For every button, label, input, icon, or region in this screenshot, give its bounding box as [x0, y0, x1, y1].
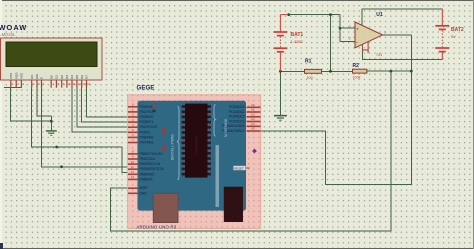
wire ground stem LCD — [50, 116, 52, 131]
svg-text:RS: RS — [30, 75, 34, 79]
sheet border bottom — [0, 248, 474, 249]
wire BAT1 node to R1 — [280, 70, 304, 72]
wire LCD D5 to PD4 — [77, 88, 129, 127]
svg-text:PB2/SS/OC1B: PB2/SS/OC1B — [140, 162, 160, 166]
wire BAT1 minus to ground — [279, 71, 281, 115]
wire RW to ground — [37, 88, 51, 117]
svg-text:PD1/TXD: PD1/TXD — [140, 110, 154, 114]
wire LCD D6 to PD3 — [82, 88, 129, 122]
wire rail drop to R1R2 node — [330, 15, 332, 72]
svg-text:9V: 9V — [451, 34, 456, 39]
svg-text:PB4/MISO: PB4/MISO — [140, 172, 155, 176]
junction feedback at output — [410, 70, 413, 73]
svg-text:11: 11 — [73, 82, 76, 86]
wire AREF bottom run to feedback node — [111, 71, 391, 231]
svg-text:BAT2: BAT2 — [451, 27, 464, 33]
svg-text:PC3/ADC3: PC3/ADC3 — [229, 119, 245, 123]
LCD screen — [6, 42, 97, 67]
svg-text:3: 3 — [349, 25, 351, 29]
svg-text:A4: A4 — [251, 122, 255, 126]
arduino right pin numbers A0-A5 — [251, 103, 255, 131]
junction BAT1 minus node — [279, 70, 282, 73]
ground under BAT1 — [274, 116, 287, 121]
svg-text:VEE: VEE — [20, 73, 24, 79]
arduino right pin labels — [222, 105, 246, 133]
svg-text:RESET: RESET — [234, 166, 244, 170]
LCD pins 1-14 — [10, 80, 87, 88]
svg-text:100k: 100k — [353, 76, 361, 80]
svg-text:GND: GND — [140, 191, 148, 195]
wire RS to arduino PB4 — [32, 88, 129, 173]
svg-text:2: 2 — [349, 37, 351, 41]
op-amp U1 — [355, 22, 383, 48]
junction LCD ground — [50, 120, 53, 123]
svg-text:D3: D3 — [65, 75, 69, 79]
svg-text:1: 1 — [384, 31, 386, 35]
svg-text:A0: A0 — [251, 103, 255, 107]
svg-text:1.4285: 1.4285 — [291, 39, 304, 44]
svg-text:10: 10 — [68, 82, 72, 86]
arduino TX RX arrows — [153, 105, 156, 113]
svg-text:ARDUINO UNO R3: ARDUINO UNO R3 — [137, 224, 177, 229]
op-amp power pins — [362, 42, 368, 54]
wire to opamp minus input — [340, 40, 356, 42]
svg-text:PC1/ADC1: PC1/ADC1 — [229, 110, 245, 114]
svg-text:13: 13 — [131, 175, 135, 179]
wire staple to opamp inputs — [339, 15, 341, 42]
wire E to arduino PB3 — [42, 88, 130, 167]
svg-text:D2: D2 — [60, 75, 64, 79]
arduino left pin numbers — [131, 103, 135, 180]
svg-text:A2: A2 — [251, 113, 255, 117]
svg-text:PB3/MOSI/OC2A: PB3/MOSI/OC2A — [140, 167, 165, 171]
wire A5 to opamp output loop — [258, 35, 411, 185]
svg-text:11: 11 — [131, 165, 134, 169]
svg-text:E: E — [40, 77, 44, 79]
ground under LCD — [46, 131, 57, 135]
origin marker bottom-left — [0, 243, 3, 249]
svg-text:12: 12 — [131, 170, 135, 174]
arduino pin state markers — [163, 128, 166, 151]
arduino RESET button — [233, 166, 249, 171]
svg-text:PB0/ICP1/CLKO: PB0/ICP1/CLKO — [140, 152, 164, 156]
svg-text:D4: D4 — [70, 75, 74, 79]
svg-text:D5: D5 — [75, 75, 79, 79]
arduino power jack — [224, 187, 243, 222]
wire BAT1 plus rail — [288, 14, 340, 16]
svg-text:A5: A5 — [251, 127, 255, 131]
svg-text:D7: D7 — [85, 75, 89, 79]
svg-text:741: 741 — [376, 53, 382, 57]
arduino purple marker — [252, 149, 257, 154]
wire opamp V- to BAT2 minus — [362, 53, 442, 59]
svg-text:R2: R2 — [353, 63, 360, 69]
svg-text:AREF: AREF — [140, 186, 148, 190]
svg-text:RW: RW — [35, 74, 39, 79]
svg-text:ANALOG IN: ANALOG IN — [224, 119, 228, 138]
wire to opamp plus input — [340, 27, 356, 29]
wire R2 feedback — [367, 70, 411, 72]
svg-text:-: - — [356, 39, 358, 45]
junction staple at plus input — [339, 27, 342, 30]
junction on E wire — [60, 165, 63, 168]
svg-text:PD5/T1: PD5/T1 — [140, 130, 151, 134]
sheet border top — [0, 0, 474, 1]
svg-text:ATMEGA328P: ATMEGA328P — [195, 136, 199, 155]
svg-text:PD7/AIN1: PD7/AIN1 — [140, 141, 154, 145]
svg-text:13: 13 — [82, 82, 86, 86]
junction feedback left — [390, 70, 393, 73]
svg-text:LM016L: LM016L — [0, 32, 16, 37]
junction rail at BAT1 plus — [287, 13, 290, 16]
svg-text:PD0/RXD: PD0/RXD — [140, 105, 154, 109]
wire LCD VSS-VDD-VEE bus — [4, 87, 22, 89]
svg-text:A1: A1 — [251, 108, 255, 112]
svg-text:PD6/AIN0: PD6/AIN0 — [140, 135, 154, 139]
svg-text:14: 14 — [87, 82, 91, 86]
svg-text:+: + — [356, 27, 359, 32]
svg-text:DIGITAL (~PWM): DIGITAL (~PWM) — [171, 134, 175, 160]
wire LCD D7 to PD2 — [87, 88, 130, 117]
arduino light stripe — [216, 145, 220, 207]
svg-text:PC2/ADC2: PC2/ADC2 — [229, 115, 245, 119]
svg-text:BAT1: BAT1 — [291, 32, 304, 38]
LCD LM016L body — [1, 38, 103, 80]
arduino analog brace — [214, 105, 216, 137]
junction R1R2 node — [329, 70, 332, 73]
arduino digital brace — [177, 107, 179, 180]
wire opamp output — [382, 34, 411, 36]
svg-text:PC0/ADC0: PC0/ADC0 — [229, 105, 245, 109]
svg-text:D6: D6 — [80, 75, 84, 79]
svg-text:VDD: VDD — [14, 72, 18, 79]
svg-text:R1: R1 — [305, 58, 312, 64]
svg-text:PD2/INT0: PD2/INT0 — [140, 115, 154, 119]
svg-text:12: 12 — [78, 82, 82, 86]
wire VSS bus to ground run — [11, 88, 52, 122]
arduino pink texture dots — [128, 95, 260, 228]
resistor R1 — [305, 69, 322, 73]
svg-text:10: 10 — [131, 160, 135, 164]
svg-text:WOAW: WOAW — [0, 23, 27, 32]
arduino ATMEGA328 chip — [182, 104, 211, 178]
svg-text:D1: D1 — [55, 75, 59, 79]
LCD pin numbers — [12, 82, 91, 86]
wire R1 to R2 — [322, 70, 353, 72]
battery BAT1 — [273, 15, 288, 72]
svg-text:PB5/SCK: PB5/SCK — [140, 177, 154, 181]
arduino blue pcb — [138, 101, 247, 211]
sheet border right — [473, 0, 474, 249]
sheet border left light strip — [0, 0, 2, 249]
svg-text:A3: A3 — [251, 117, 255, 121]
svg-text:100: 100 — [307, 76, 313, 80]
arduino board outline pink — [128, 95, 261, 229]
junction rail drop top — [329, 13, 332, 16]
svg-text:PD4/T0/XCK: PD4/T0/XCK — [140, 125, 159, 129]
arduino USB connector — [153, 193, 178, 222]
LCD pin names vertical — [9, 72, 89, 79]
arduino left pin labels — [140, 105, 165, 196]
arduino right pins A0-A5 — [247, 107, 261, 132]
wire BAT2 plus rail to opamp V+ — [362, 9, 442, 26]
svg-text:U1: U1 — [376, 12, 383, 18]
svg-text:D0: D0 — [49, 75, 53, 79]
svg-text:PD3/INT1: PD3/INT1 — [140, 120, 154, 124]
battery BAT2 — [435, 9, 449, 60]
resistor R2 — [353, 69, 367, 73]
svg-text:PB1/OC1A: PB1/OC1A — [140, 157, 156, 161]
svg-text:GEGE: GEGE — [137, 85, 155, 92]
svg-text:VSS: VSS — [9, 73, 13, 79]
wire LCD D4 to PD5 — [72, 88, 129, 132]
junction on RS wire — [55, 146, 58, 149]
arduino left pins PD0-PD7 PB0-PB5 AREF GND — [128, 106, 138, 194]
